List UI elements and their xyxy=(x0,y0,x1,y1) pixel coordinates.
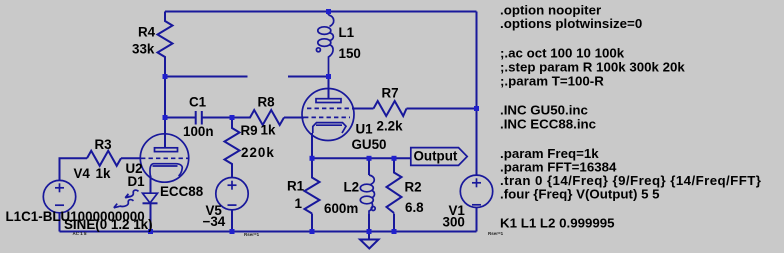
wire V1 bottom lead and corner xyxy=(476,208,478,232)
node junction R2 bottom xyxy=(392,229,397,234)
wire L2 bottom lead xyxy=(368,214,370,232)
node junction L2 top xyxy=(367,156,372,161)
node junction R7 right rail xyxy=(474,106,479,111)
svg-text:150: 150 xyxy=(339,46,361,61)
voltage source V5 xyxy=(203,178,260,238)
label V4 sine source text xyxy=(6,209,153,236)
resistor R4 xyxy=(132,12,173,77)
wire C1 right lead to R8 node xyxy=(203,117,233,119)
svg-text:Rser=1: Rser=1 xyxy=(488,231,504,236)
svg-text:L2: L2 xyxy=(344,180,360,195)
svg-text:Rser=1: Rser=1 xyxy=(244,232,260,237)
svg-text:;.step param R 100k 300k 20k: ;.step param R 100k 300k 20k xyxy=(500,60,685,75)
svg-text:.INC GU50.inc: .INC GU50.inc xyxy=(500,103,588,118)
svg-text:6.8: 6.8 xyxy=(405,200,424,215)
inductor L1 xyxy=(316,12,360,77)
spice directive block 3 xyxy=(500,103,596,132)
svg-text:V4: V4 xyxy=(74,166,91,181)
svg-text:.INC ECC88.inc: .INC ECC88.inc xyxy=(500,117,596,132)
ground xyxy=(360,232,379,249)
wire V4 bottom lead xyxy=(59,213,61,232)
wire x165 from R4 bottom node down to C1 node xyxy=(164,77,166,118)
svg-text:Output: Output xyxy=(414,148,458,163)
node junction ground / L2 bottom xyxy=(367,229,372,234)
wire right vertical rail down to V1 xyxy=(476,12,478,176)
resistor R1 xyxy=(287,158,320,213)
svg-text:GU50: GU50 xyxy=(352,137,387,152)
resistor R9 xyxy=(225,118,275,178)
resistor R3 xyxy=(87,137,121,181)
spice directive block 4 xyxy=(500,146,761,201)
spice directive block 1 xyxy=(500,3,642,31)
svg-text:1k: 1k xyxy=(261,123,276,138)
svg-text:ECC88: ECC88 xyxy=(160,184,204,199)
svg-text:.options plotwinsize=0: .options plotwinsize=0 xyxy=(500,16,642,31)
svg-text:R4: R4 xyxy=(138,25,156,40)
voltage source V1 xyxy=(443,175,504,236)
wire screen-row left segment from R4 node xyxy=(165,76,248,78)
svg-text:R7: R7 xyxy=(382,86,399,101)
wire R8 right lead into U1 grid xyxy=(284,117,304,119)
wire R2 bottom lead xyxy=(393,214,395,232)
capacitor C1 xyxy=(183,94,214,139)
node junction R8 / R9 xyxy=(230,115,235,120)
svg-text:R9: R9 xyxy=(241,123,258,138)
svg-text:U1: U1 xyxy=(356,121,374,136)
node junction R4 bottom xyxy=(163,74,168,79)
wire V4 top lead and corner to R3 xyxy=(60,158,88,180)
wire top rail from R4 to right rail xyxy=(165,11,477,13)
node junction R2 top xyxy=(392,156,397,161)
voltage source V4 xyxy=(43,166,90,213)
svg-text:220k: 220k xyxy=(241,145,275,160)
svg-text:2.2k: 2.2k xyxy=(377,119,404,134)
spice directive K1 coupling xyxy=(500,216,615,231)
wire R3 right lead to U2 grid xyxy=(121,157,141,159)
svg-text:K1 L1 L2 0.999995: K1 L1 L2 0.999995 xyxy=(500,216,615,231)
svg-text:.four {Freq} V(Output) 5 5: .four {Freq} V(Output) 5 5 xyxy=(500,186,660,201)
wire U2 cathode to D1 anode xyxy=(150,176,152,194)
svg-text:AC 1 8: AC 1 8 xyxy=(73,231,88,236)
node junction L1 top xyxy=(326,9,331,14)
wire U1 cathode down to node row xyxy=(311,133,313,158)
wire D1 cathode to bottom rail xyxy=(150,203,152,231)
svg-text:300: 300 xyxy=(443,215,465,230)
node junction L1 bottom / U1 plate xyxy=(326,74,331,79)
spice directive block 2 xyxy=(500,46,685,89)
resistor R8 xyxy=(232,94,284,137)
svg-text:;.param T=100-R: ;.param T=100-R xyxy=(500,74,604,89)
wire R1 bottom lead xyxy=(311,214,313,232)
diode D1 (LED) xyxy=(114,174,158,208)
wire R7 right lead to right rail xyxy=(407,108,477,110)
resistor R7 xyxy=(374,86,407,134)
svg-text:L1: L1 xyxy=(339,25,355,40)
pentode U1 xyxy=(302,77,386,152)
resistor R2 xyxy=(387,158,425,215)
svg-text:33k: 33k xyxy=(132,42,155,57)
svg-text:600m: 600m xyxy=(324,201,358,216)
wire bottom rail xyxy=(60,231,477,233)
triode U2 xyxy=(126,118,204,200)
svg-text:R2: R2 xyxy=(405,180,422,195)
wire V5 bottom lead xyxy=(231,210,233,232)
wire cathode row to Output flag xyxy=(312,157,410,159)
svg-text:−34: −34 xyxy=(203,214,226,229)
svg-text:C1: C1 xyxy=(189,94,207,109)
node junction C1 left / U2 plate xyxy=(163,115,168,120)
svg-text:R1: R1 xyxy=(287,179,305,194)
wire screen-row right segment to L1 node xyxy=(288,76,329,78)
wire R7 left lead from U1 screen grid xyxy=(352,108,374,110)
svg-text:R8: R8 xyxy=(258,94,276,109)
inductor L2 xyxy=(324,158,375,231)
svg-text:SINE(0 1.2 1k): SINE(0 1.2 1k) xyxy=(64,217,153,232)
node junction V5 bottom xyxy=(230,229,235,234)
svg-text:1k: 1k xyxy=(96,166,111,181)
svg-text:1: 1 xyxy=(295,196,303,211)
output net flag xyxy=(411,148,467,166)
svg-text:;.ac oct 100 10 100k: ;.ac oct 100 10 100k xyxy=(500,46,625,61)
node junction D1 bottom xyxy=(148,229,153,234)
node junction R1 bottom xyxy=(310,229,315,234)
svg-text:D1: D1 xyxy=(128,174,146,189)
svg-text:R3: R3 xyxy=(95,137,112,152)
svg-text:100n: 100n xyxy=(183,124,214,139)
wire C1 left lead xyxy=(165,117,195,119)
node junction U1 cathode / R1 xyxy=(310,156,315,161)
